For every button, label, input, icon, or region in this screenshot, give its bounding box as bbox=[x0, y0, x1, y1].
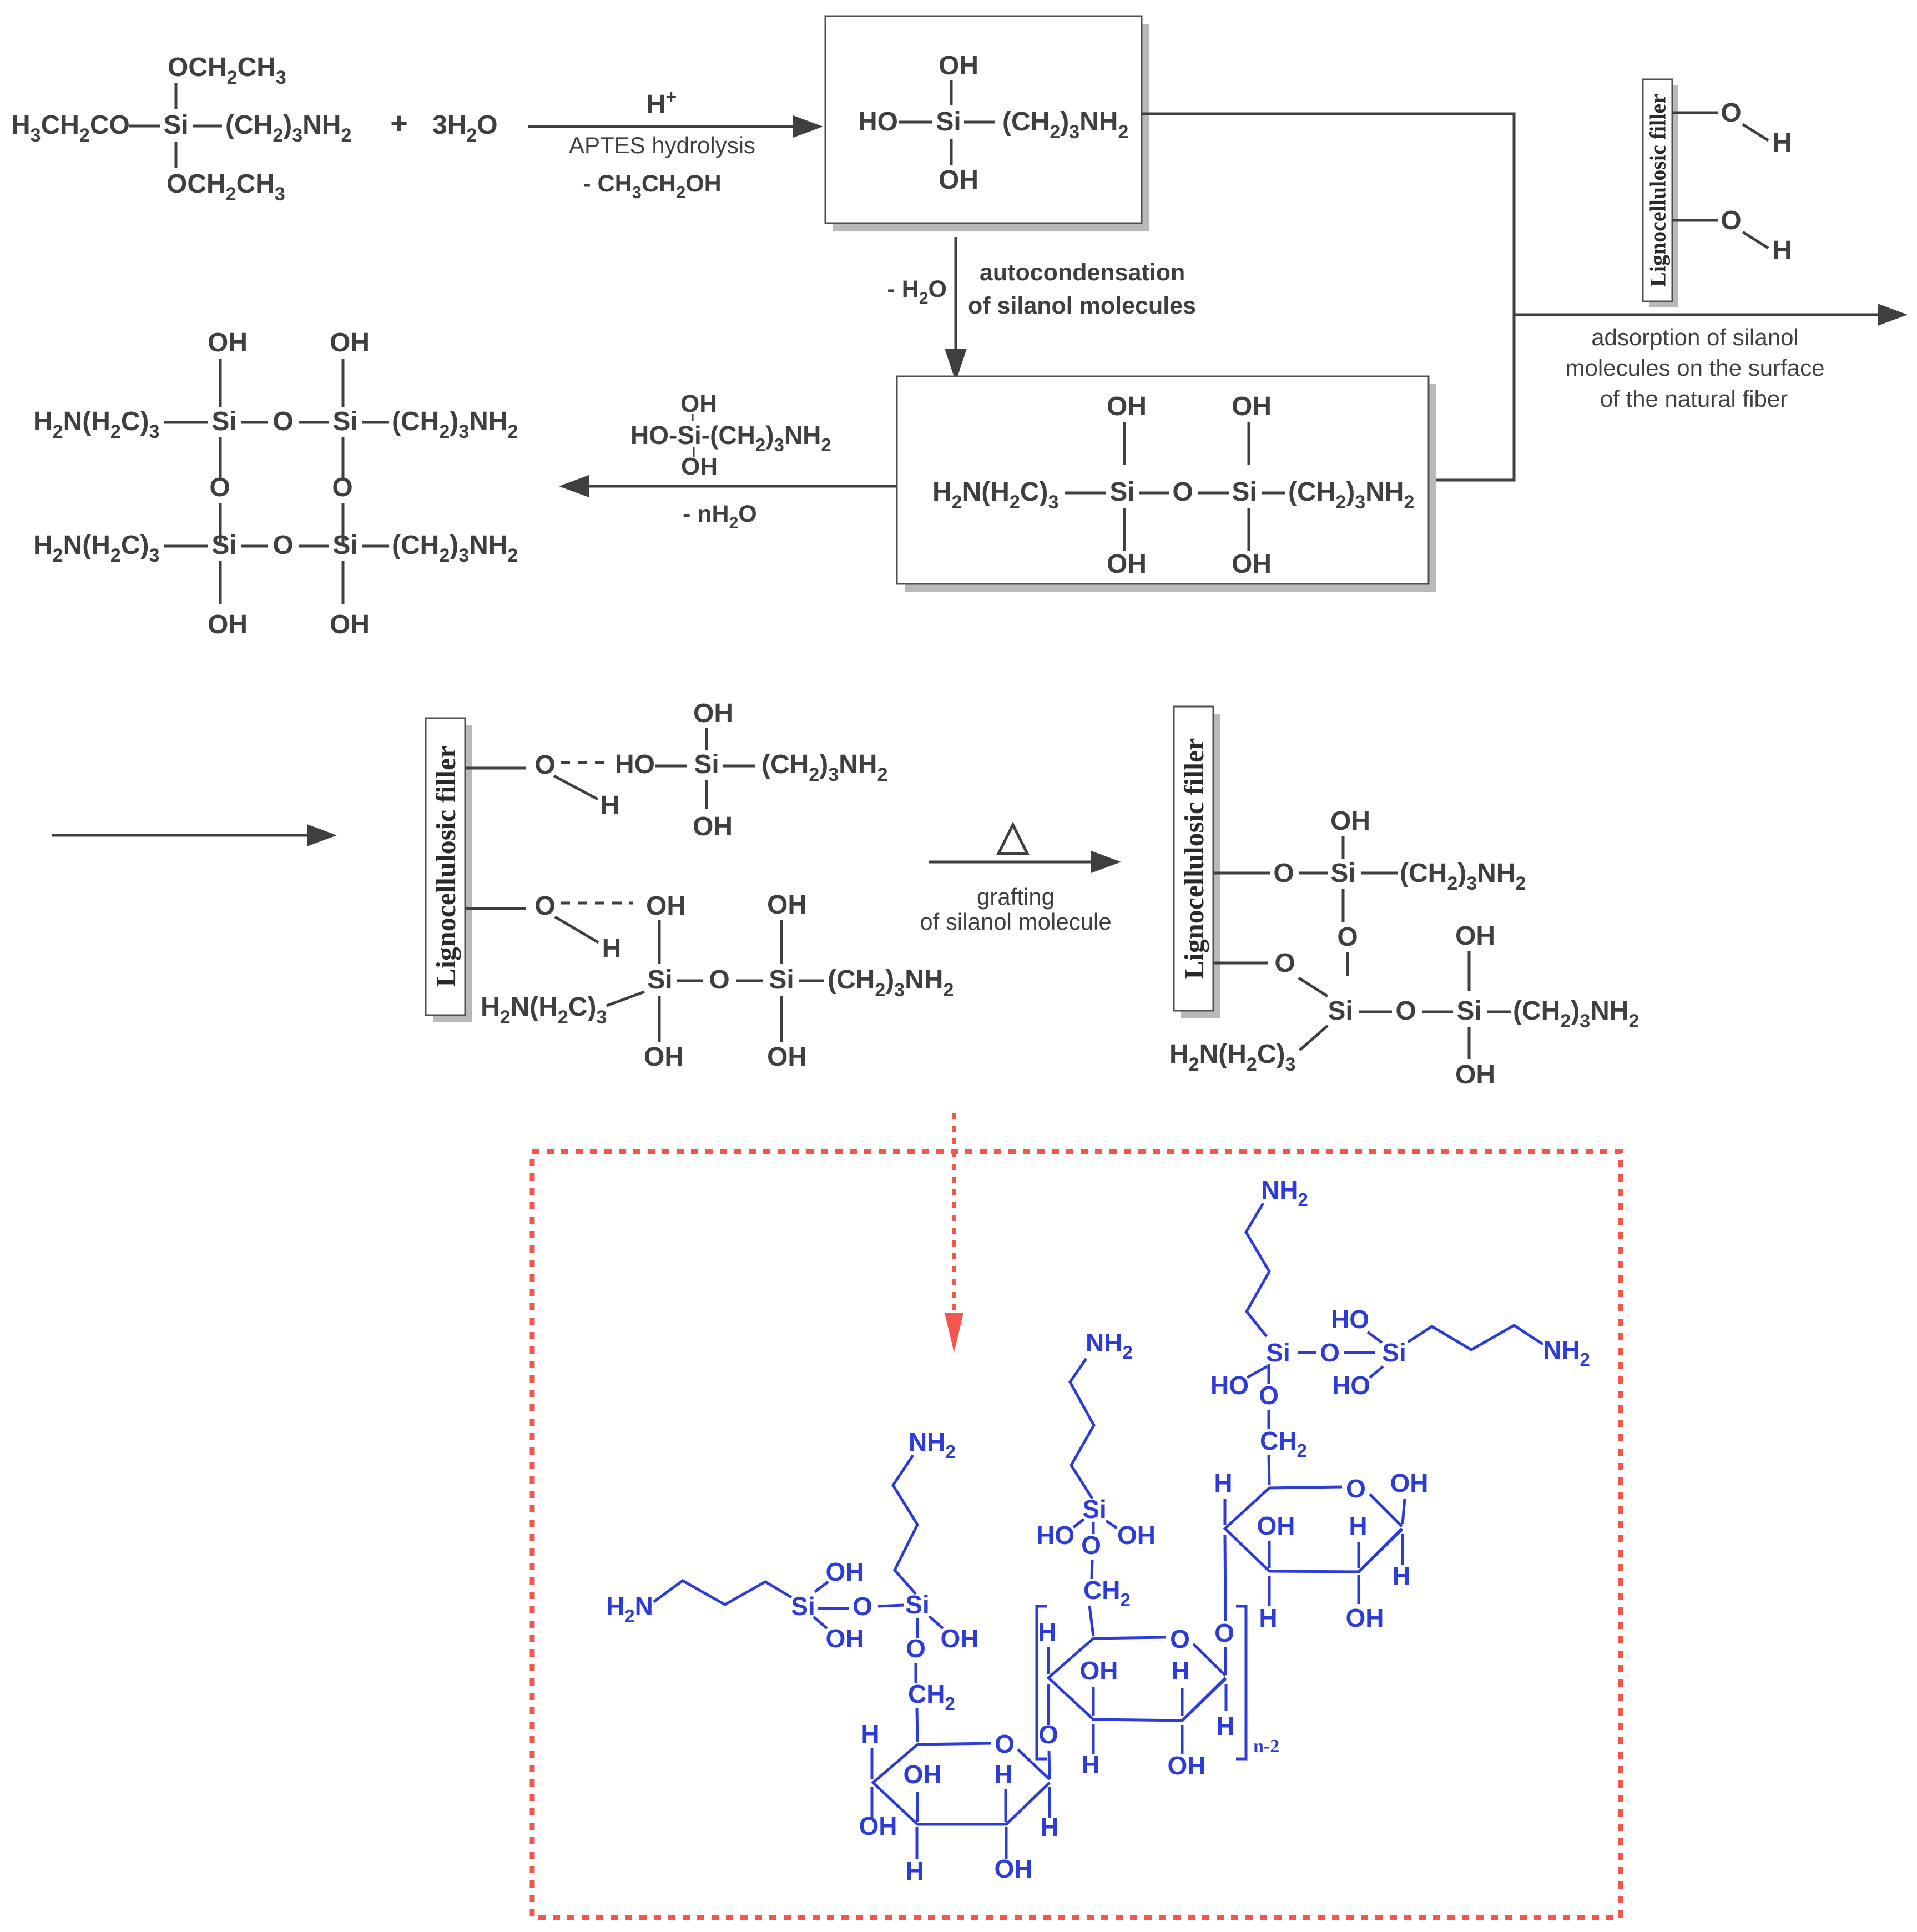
svg-text:OH: OH bbox=[939, 165, 978, 195]
silanol molecule HO-Si-(CH2)3NH2 bbox=[858, 51, 1128, 195]
ring 3 substituents bbox=[1214, 1469, 1428, 1632]
svg-text:O: O bbox=[906, 1634, 926, 1663]
svg-text:HO: HO bbox=[615, 750, 655, 779]
svg-text:O: O bbox=[1721, 206, 1741, 235]
svg-text:O: O bbox=[1170, 1625, 1190, 1653]
siloxane dimer B: Si-O-Si with HO groups bbox=[1210, 1305, 1406, 1400]
svg-text:H: H bbox=[1081, 1750, 1099, 1779]
svg-text:Si: Si bbox=[332, 407, 357, 436]
arrow: autocondensation of silanol molecules bbox=[887, 237, 1196, 382]
svg-text:Si: Si bbox=[1082, 1495, 1106, 1524]
grafted silanol (top): O-Si-(CH2)3NH2 bbox=[1213, 806, 1526, 976]
svg-text:O: O bbox=[273, 531, 293, 560]
glucose ring 2 bbox=[1048, 1625, 1225, 1721]
arrow: adsorption of silanol molecules bbox=[1513, 304, 1908, 412]
svg-text:Si: Si bbox=[936, 107, 961, 137]
ring 1 substituents bbox=[859, 1719, 1059, 1885]
svg-text:H: H bbox=[1214, 1469, 1232, 1497]
svg-text:OH: OH bbox=[1080, 1656, 1118, 1685]
svg-text:Si: Si bbox=[1456, 996, 1481, 1026]
svg-text:O: O bbox=[332, 473, 352, 502]
svg-text:OH: OH bbox=[681, 453, 718, 480]
red dashed product box bbox=[532, 1152, 1621, 1918]
svg-text:H: H bbox=[1038, 1617, 1056, 1646]
svg-text:n-2: n-2 bbox=[1253, 1736, 1279, 1757]
svg-text:H: H bbox=[1773, 128, 1792, 158]
arrow: grafting of silanol molecule bbox=[920, 825, 1121, 935]
svg-text:OH: OH bbox=[826, 1557, 864, 1586]
repeat bracket left bbox=[1037, 1606, 1047, 1759]
svg-text:O: O bbox=[1214, 1618, 1234, 1647]
svg-text:adsorption of silanol: adsorption of silanol bbox=[1591, 324, 1799, 350]
propylamine chain A1 H2N-(CH2)3- bbox=[606, 1581, 791, 1626]
svg-text:Si: Si bbox=[769, 965, 794, 995]
APTES molecule bbox=[11, 53, 351, 205]
svg-text:OH: OH bbox=[859, 1812, 897, 1840]
red dashed arrow into product box bbox=[945, 1113, 963, 1353]
svg-text:OH: OH bbox=[208, 328, 248, 357]
svg-text:H: H bbox=[905, 1857, 924, 1885]
svg-text:Si: Si bbox=[647, 965, 672, 995]
svg-text:OH: OH bbox=[1107, 549, 1147, 579]
svg-text:OH: OH bbox=[1455, 1060, 1495, 1089]
svg-text:H: H bbox=[1349, 1511, 1367, 1540]
svg-text:Si: Si bbox=[211, 531, 236, 560]
svg-text:Si: Si bbox=[163, 110, 188, 140]
wire from silanol box to adsorption path bbox=[1141, 114, 1514, 480]
svg-text:OH: OH bbox=[680, 390, 717, 417]
svg-text:O: O bbox=[1274, 949, 1295, 978]
surface hydroxyl group 1 bbox=[1672, 98, 1792, 158]
svg-text:O: O bbox=[995, 1729, 1015, 1758]
svg-text:O: O bbox=[1273, 859, 1294, 888]
svg-text:H: H bbox=[861, 1719, 879, 1748]
glucose ring 3 bbox=[1225, 1474, 1402, 1572]
silicon Si (dimer A left) bbox=[791, 1557, 864, 1653]
svg-text:OH: OH bbox=[693, 812, 733, 841]
propylamine chain B to NH2 bbox=[1070, 1328, 1133, 1499]
svg-text:HO: HO bbox=[858, 107, 898, 137]
svg-text:O: O bbox=[1346, 1474, 1366, 1503]
glucose ring 1 bbox=[873, 1729, 1050, 1824]
O-CH2 linkage to ring 2 bbox=[1083, 1560, 1131, 1636]
svg-text:H: H bbox=[1040, 1813, 1058, 1842]
box: silanol molecule bbox=[825, 16, 1149, 231]
grafted disilanol (bottom) bbox=[1169, 921, 1639, 1089]
svg-text:of silanol molecules: of silanol molecules bbox=[968, 292, 1196, 319]
svg-text:of silanol molecule: of silanol molecule bbox=[920, 909, 1112, 935]
svg-text:OH: OH bbox=[826, 1624, 864, 1653]
svg-text:H: H bbox=[994, 1760, 1012, 1789]
svg-text:APTES hydrolysis: APTES hydrolysis bbox=[569, 132, 755, 158]
svg-text:OH: OH bbox=[1257, 1511, 1295, 1540]
svg-text:O: O bbox=[209, 473, 230, 502]
arrow to adsorbed state bbox=[52, 834, 319, 837]
svg-text:Si: Si bbox=[1109, 477, 1134, 507]
svg-text:OH: OH bbox=[1346, 1603, 1384, 1632]
svg-text:Si: Si bbox=[905, 1590, 929, 1619]
svg-text:O: O bbox=[852, 1592, 872, 1621]
svg-text:H: H bbox=[601, 791, 620, 820]
lignocellulosic filler box (adsorbed state) bbox=[426, 718, 472, 1022]
svg-text:HO: HO bbox=[1332, 1371, 1370, 1400]
glycosidic oxygen ring1-ring2 bbox=[1038, 1684, 1058, 1779]
svg-text:OH: OH bbox=[1232, 549, 1272, 579]
arrow: polycondensation -nH2O bbox=[559, 390, 897, 532]
ring 2 substituents bbox=[1038, 1617, 1234, 1780]
svg-text:OH: OH bbox=[330, 328, 370, 357]
O-CH2 linkage to ring 1 bbox=[906, 1618, 955, 1742]
propylamine chain C2 (right NH2) bbox=[1408, 1325, 1590, 1370]
svg-text:Si: Si bbox=[332, 531, 357, 560]
svg-text:molecules on the surface: molecules on the surface bbox=[1566, 355, 1825, 381]
svg-text:OH: OH bbox=[1117, 1521, 1156, 1550]
svg-text:OH: OH bbox=[693, 699, 733, 728]
surface hydroxyl group 2 bbox=[1672, 206, 1792, 265]
propylamine chain A2 to NH2 bbox=[893, 1427, 956, 1594]
tetra-silanol network molecule bbox=[33, 328, 518, 639]
svg-text:O: O bbox=[534, 750, 555, 780]
svg-text:OH: OH bbox=[767, 890, 807, 920]
propylamine chain C1 (top NH2) bbox=[1246, 1176, 1308, 1336]
svg-text:Lignocellulosic filler: Lignocellulosic filler bbox=[1645, 94, 1670, 287]
svg-text:Si: Si bbox=[1382, 1338, 1406, 1367]
svg-text:OH: OH bbox=[1107, 392, 1147, 421]
svg-text:OH: OH bbox=[1390, 1469, 1429, 1497]
svg-text:OH: OH bbox=[208, 610, 248, 639]
svg-text:autocondensation: autocondensation bbox=[980, 259, 1185, 286]
svg-text:Si: Si bbox=[1266, 1338, 1290, 1367]
svg-text:O: O bbox=[273, 407, 293, 436]
disilanol molecule H2N(H2C)3-Si-O-Si-(CH2)3NH2 bbox=[932, 392, 1414, 579]
svg-text:H: H bbox=[1216, 1712, 1234, 1741]
svg-text:O: O bbox=[1721, 98, 1741, 128]
svg-text:Si: Si bbox=[791, 1592, 815, 1621]
svg-text:O: O bbox=[534, 891, 555, 921]
svg-text:HO: HO bbox=[1210, 1371, 1249, 1400]
repeat bracket right with n-2 bbox=[1236, 1606, 1279, 1759]
svg-text:HO: HO bbox=[1331, 1305, 1369, 1334]
hydrogen-bonded silanol (top): O...HO-Si-(CH2)3NH2 bbox=[465, 699, 887, 841]
svg-text:Si: Si bbox=[694, 750, 719, 779]
svg-text:OH: OH bbox=[1232, 392, 1272, 421]
svg-text:O: O bbox=[1337, 922, 1358, 952]
svg-text:Si: Si bbox=[1328, 996, 1353, 1026]
box: condensed disilanol molecule bbox=[897, 376, 1436, 592]
svg-text:O: O bbox=[1320, 1338, 1340, 1367]
svg-text:OH: OH bbox=[995, 1854, 1033, 1883]
siloxane bridge Si-O-Si (dimer A) bbox=[818, 1590, 979, 1653]
svg-text:OH: OH bbox=[767, 1042, 807, 1072]
lignocellulosic filler box (grafted state) bbox=[1174, 707, 1220, 1018]
svg-text:OH: OH bbox=[1455, 921, 1495, 951]
svg-text:OH: OH bbox=[904, 1760, 942, 1789]
svg-text:O: O bbox=[1259, 1381, 1279, 1410]
svg-text:O: O bbox=[1395, 996, 1416, 1026]
svg-text:Lignocellulosic filler: Lignocellulosic filler bbox=[1178, 738, 1209, 980]
svg-text:OH: OH bbox=[644, 1042, 684, 1072]
svg-text:H: H bbox=[1259, 1603, 1277, 1632]
svg-text:Si: Si bbox=[1330, 859, 1355, 888]
svg-text:OH: OH bbox=[941, 1624, 979, 1653]
svg-text:H: H bbox=[602, 934, 622, 964]
silanol Si(OH)(HO) unit B bbox=[1036, 1495, 1156, 1560]
svg-text:Si: Si bbox=[1232, 477, 1257, 507]
svg-text:H: H bbox=[1392, 1561, 1410, 1590]
svg-text:of the natural fiber: of the natural fiber bbox=[1600, 386, 1788, 412]
reaction arrow: APTES hydrolysis bbox=[528, 87, 823, 202]
hydrogen-bonded disilanol (bottom) bbox=[465, 890, 954, 1072]
svg-text:H: H bbox=[1773, 236, 1792, 265]
svg-text:grafting: grafting bbox=[977, 884, 1055, 910]
svg-text:OH: OH bbox=[646, 891, 686, 921]
svg-text:OH: OH bbox=[330, 610, 370, 639]
svg-text:HO: HO bbox=[1036, 1521, 1074, 1550]
svg-text:OH: OH bbox=[1168, 1751, 1206, 1780]
svg-text:OH: OH bbox=[1330, 806, 1370, 836]
lignocellulosic filler box (top right) bbox=[1643, 79, 1678, 307]
svg-text:O: O bbox=[1081, 1531, 1101, 1560]
svg-text:O: O bbox=[1172, 477, 1193, 507]
svg-text:+: + bbox=[390, 107, 408, 140]
svg-text:H: H bbox=[1171, 1656, 1189, 1685]
svg-text:O: O bbox=[709, 965, 729, 995]
svg-text:OH: OH bbox=[939, 51, 978, 80]
svg-text:Si: Si bbox=[211, 407, 236, 436]
glycosidic oxygen ring2-ring3 bbox=[1214, 1535, 1234, 1675]
svg-text:Lignocellulosic filler: Lignocellulosic filler bbox=[430, 746, 461, 987]
O-CH2 linkage to ring 3 bbox=[1259, 1364, 1307, 1485]
